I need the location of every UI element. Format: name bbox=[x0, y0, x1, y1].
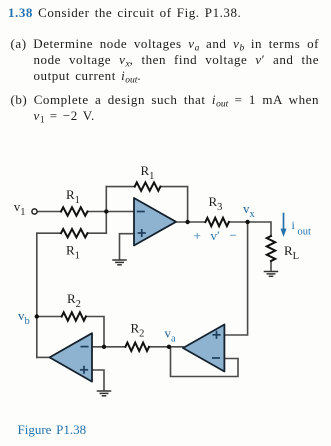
svg-text:vx: vx bbox=[243, 201, 256, 220]
resistor R2 feedback bbox=[62, 312, 86, 320]
U1 minus symbol bbox=[138, 211, 144, 213]
paragraph (b) line 1 bbox=[11, 92, 320, 107]
terminal circle v1 bbox=[32, 209, 37, 214]
node vx junction bbox=[245, 220, 249, 224]
svg-text:−: − bbox=[230, 228, 237, 243]
wire vx down to U3 + input bbox=[224, 222, 247, 335]
svg-text:i: i bbox=[292, 218, 296, 232]
node va junction bbox=[167, 345, 171, 349]
resistor R1 lower (vb branch) bbox=[61, 229, 88, 237]
wire v1 terminal to R1 bbox=[37, 211, 61, 213]
wire R1 to inverting input of U1 (through node) bbox=[88, 211, 135, 213]
wire RL bottom to ground bbox=[270, 261, 272, 271]
svg-text:+: + bbox=[194, 228, 201, 243]
U3 plus symbol bbox=[213, 332, 220, 338]
wire U1 + input to ground bbox=[120, 234, 135, 260]
wire vertical node bus at x=105 bbox=[105, 187, 107, 234]
svg-text:va: va bbox=[165, 326, 177, 345]
wire feedback R1 right segment down to U1 output bbox=[160, 187, 187, 222]
U3 minus symbol bbox=[213, 357, 219, 359]
current arrow i_out bbox=[281, 214, 287, 238]
wire R1 lower right end to node bus bbox=[88, 232, 107, 234]
ground at U2 + input bbox=[98, 391, 111, 396]
svg-text:RL: RL bbox=[284, 243, 299, 262]
wire left vertical bus vb bbox=[36, 233, 38, 357]
svg-text:R1: R1 bbox=[66, 187, 80, 206]
wire U3 - input feedback loop to va bbox=[171, 347, 239, 377]
ground below RL bbox=[265, 272, 278, 277]
paragraph (b) line 2 bbox=[34, 108, 95, 123]
paragraph (a) line 2 bbox=[34, 52, 320, 67]
paragraph (a) line 3 bbox=[34, 68, 142, 83]
wire R1 lower left end to left bus bbox=[37, 232, 61, 234]
U2 plus symbol bbox=[81, 367, 88, 373]
svg-text:R1: R1 bbox=[141, 163, 155, 182]
wire va to U3 apex bbox=[149, 346, 183, 348]
resistor RL bbox=[267, 236, 275, 261]
wire vx to RL top bbox=[248, 222, 271, 236]
resistor R3 bbox=[205, 218, 229, 226]
svg-text:R1: R1 bbox=[66, 243, 80, 262]
svg-text:R2: R2 bbox=[131, 321, 145, 340]
figure caption: Figure P1.38 bbox=[18, 422, 87, 437]
wire U2 - input to R2 bbox=[92, 346, 125, 348]
wire U2 output to left bus bbox=[37, 356, 50, 358]
ground at U1 + input bbox=[113, 260, 126, 265]
node junction at U1 inverting input bbox=[104, 209, 108, 213]
svg-text:v1: v1 bbox=[14, 199, 26, 218]
svg-text:vb: vb bbox=[18, 308, 30, 327]
op-amp U2 bbox=[50, 333, 92, 381]
wire feedback R2 right down to - input node bbox=[86, 317, 104, 347]
node junction at U1 output bbox=[185, 220, 189, 224]
resistor R2 series (va) bbox=[125, 343, 149, 351]
svg-text:out: out bbox=[298, 227, 312, 238]
node junction at U2 inverting input bbox=[102, 345, 106, 349]
resistor R1 input (v1) bbox=[61, 207, 88, 215]
op-amp U1 bbox=[134, 198, 176, 246]
resistor R1 feedback bbox=[135, 182, 161, 190]
wire vb to feedback R2 left bbox=[37, 316, 62, 318]
node vb junction bbox=[35, 314, 39, 318]
heading line: 1.38 Consider the circuit of Fig. P1.38. bbox=[8, 5, 241, 20]
wire U2 + input to ground bbox=[92, 370, 104, 391]
wire R3 to node vx bbox=[229, 221, 248, 223]
svg-text:R3: R3 bbox=[209, 194, 223, 213]
paragraph (a) line 1 bbox=[11, 36, 320, 51]
wire feedback R1 left segment bbox=[106, 186, 134, 188]
op-amp U3 bbox=[183, 325, 224, 372]
wire U1 output to R3 bbox=[176, 221, 205, 223]
U1 plus symbol bbox=[138, 230, 145, 236]
svg-text:v′: v′ bbox=[211, 228, 221, 243]
svg-text:R2: R2 bbox=[67, 291, 81, 310]
U2 minus symbol bbox=[81, 346, 87, 348]
